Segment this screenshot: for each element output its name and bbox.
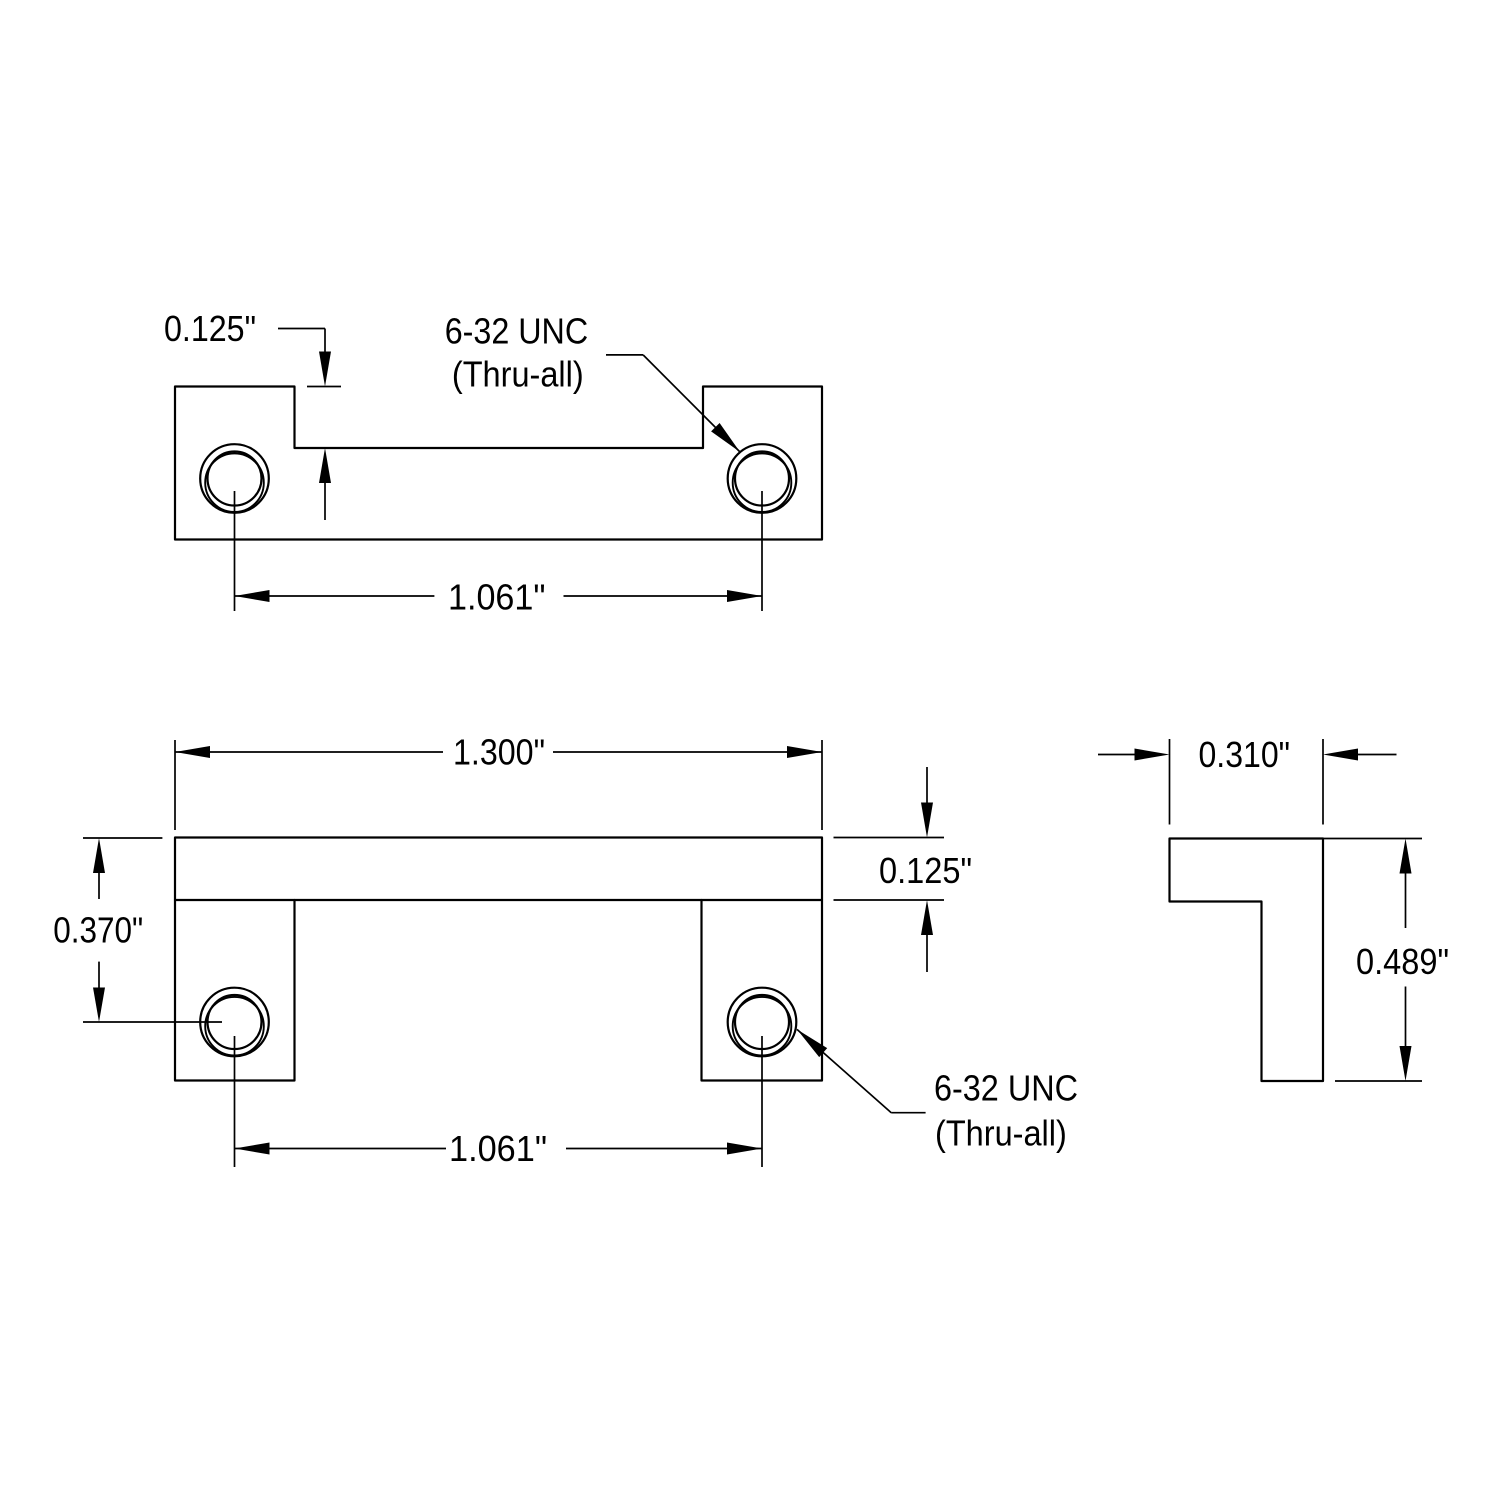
svg-text:6-32 UNC: 6-32 UNC bbox=[934, 1068, 1078, 1109]
front view 1.300 dimension line left segment bbox=[175, 751, 443, 753]
front view 0.370 up arrowhead bbox=[93, 838, 105, 873]
front view leader arrowhead bbox=[797, 1029, 827, 1057]
top view right hole thread arc bbox=[733, 453, 792, 512]
front view 0.125 lower arrow tail bbox=[926, 935, 928, 972]
top view 0.125 up arrowhead bbox=[319, 448, 331, 483]
front view left hole outer circle bbox=[200, 988, 269, 1057]
front view flange outline bbox=[175, 838, 822, 901]
front view 1.300 dimension line right segment bbox=[553, 751, 822, 753]
top view 1.061 left arrowhead bbox=[235, 590, 270, 602]
front view right hole inner circle bbox=[735, 995, 789, 1049]
svg-text:0.370": 0.370" bbox=[53, 910, 143, 951]
svg-text:0.489": 0.489" bbox=[1356, 941, 1449, 982]
top view right hole inner circle bbox=[735, 452, 789, 506]
top view 1.061 right arrowhead bbox=[727, 590, 762, 602]
front view right hole outer circle bbox=[728, 988, 797, 1057]
svg-text:(Thru-all): (Thru-all) bbox=[452, 353, 584, 394]
front view 1.300 right arrowhead bbox=[787, 746, 822, 758]
front view left leg outline bbox=[175, 900, 295, 1081]
front view left hole inner circle bbox=[208, 995, 262, 1049]
front view 0.370 lower extension line / hole center line bbox=[83, 1021, 222, 1023]
side view top edge extension line bbox=[1323, 838, 1422, 840]
front view 1.061 dimension line right segment bbox=[566, 1148, 762, 1150]
svg-text:1.061": 1.061" bbox=[449, 1128, 547, 1169]
top view 1.061 dimension line right segment bbox=[564, 595, 763, 597]
side view part outline bbox=[1170, 839, 1324, 1082]
top view right hole centerline bbox=[761, 491, 763, 611]
front view 0.370 down arrowhead bbox=[93, 988, 105, 1023]
side view 0.310 right arrow tail bbox=[1358, 754, 1397, 756]
top view left hole inner circle bbox=[208, 452, 262, 506]
front view 0.370 upper arrow tail bbox=[98, 873, 100, 899]
side view 0.489 up arrowhead bbox=[1400, 839, 1412, 874]
front view 1.300 right extension line bbox=[821, 740, 823, 830]
front view 1.061 dimension line left segment bbox=[235, 1148, 447, 1150]
front view 0.125 lower extension line bbox=[834, 899, 945, 901]
svg-text:0.125": 0.125" bbox=[879, 850, 972, 891]
front view right hole centerline bbox=[761, 1036, 763, 1167]
front view 0.370 lower arrow tail bbox=[98, 962, 100, 988]
top view left hole centerline bbox=[234, 491, 236, 611]
side view 0.310 right extension line bbox=[1322, 739, 1324, 825]
top view part outline bbox=[175, 387, 822, 540]
front view 0.125 upper extension line bbox=[834, 837, 945, 839]
top view 1.061 dimension line left segment bbox=[235, 595, 435, 597]
front view 0.125 up arrowhead bbox=[921, 900, 933, 935]
top view right hole outer circle bbox=[728, 444, 797, 513]
side view 0.310 right arrowhead bbox=[1323, 749, 1358, 761]
side view bottom extension line bbox=[1335, 1080, 1422, 1082]
front view left hole thread arc bbox=[205, 997, 264, 1056]
front view leader 6-32 UNC horizontal bbox=[891, 1112, 925, 1114]
side view 0.489 lower arrow tail bbox=[1405, 987, 1407, 1047]
front view right leg outline bbox=[702, 900, 823, 1081]
front view 0.370 upper extension line bbox=[83, 837, 162, 839]
svg-text:0.310": 0.310" bbox=[1199, 734, 1291, 775]
svg-text:6-32 UNC: 6-32 UNC bbox=[445, 311, 589, 352]
top view left hole outer circle bbox=[200, 444, 269, 513]
top view 0.125 leader horizontal bbox=[278, 328, 325, 330]
side view 0.489 upper arrow tail bbox=[1405, 874, 1407, 929]
svg-text:1.061": 1.061" bbox=[448, 576, 546, 617]
side view 0.489 down arrowhead bbox=[1400, 1046, 1412, 1081]
top view leader 6-32 UNC diagonal bbox=[643, 355, 740, 452]
top view 0.125 lower arrow tail bbox=[324, 483, 326, 520]
front view 1.300 left extension line bbox=[174, 740, 176, 830]
svg-text:(Thru-all): (Thru-all) bbox=[935, 1112, 1067, 1153]
top view leader 6-32 UNC horizontal bbox=[606, 354, 643, 356]
top view leader arrowhead bbox=[711, 423, 740, 452]
top view left hole thread arc bbox=[205, 453, 264, 512]
side view 0.310 left arrow tail bbox=[1098, 754, 1135, 756]
svg-text:0.125": 0.125" bbox=[164, 308, 256, 349]
front view leader 6-32 UNC diagonal bbox=[797, 1029, 891, 1112]
svg-text:1.300": 1.300" bbox=[453, 732, 545, 773]
side view 0.310 left extension line bbox=[1169, 739, 1171, 825]
side view 0.310 left arrowhead bbox=[1135, 749, 1170, 761]
front view 0.125 down arrowhead bbox=[921, 803, 933, 838]
front view 0.125 upper arrow tail bbox=[926, 767, 928, 803]
top view 0.125 leader vertical to arrow bbox=[324, 329, 326, 353]
front view 1.300 left arrowhead bbox=[175, 746, 210, 758]
top view 0.125 down arrowhead bbox=[319, 352, 331, 387]
front view 1.061 right arrowhead bbox=[727, 1143, 762, 1155]
front view left hole centerline bbox=[234, 1036, 236, 1167]
front view 1.061 left arrowhead bbox=[235, 1143, 270, 1155]
front view right hole thread arc bbox=[733, 997, 792, 1056]
top view 0.125 reference tick at notch top level bbox=[307, 386, 341, 388]
